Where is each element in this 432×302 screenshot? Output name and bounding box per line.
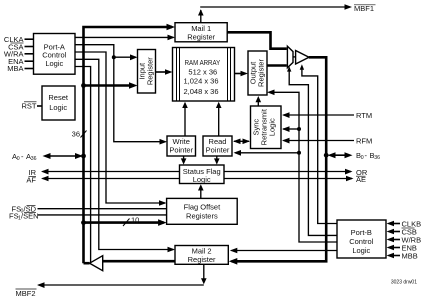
svg-text:Logic: Logic [45,59,63,68]
arrowhead A-bus to Mail 1 [167,24,176,31]
junction to Read Pointer [234,150,302,156]
Reset Logic box U2 [42,86,75,120]
svg-text:Register: Register [146,57,155,85]
label bus width 36 with slash [72,130,87,139]
wire Output Register to mux [267,64,287,67]
wire mux select from Port-B [287,66,337,235]
pin AE [224,175,366,184]
svg-text:512 x 36: 512 x 36 [188,68,217,77]
svg-text:MBF1: MBF1 [354,4,374,13]
svg-text:Flag Offset: Flag Offset [184,203,221,212]
svg-text:36: 36 [72,130,80,139]
wire Mail 2 to MBF2 [37,264,207,288]
pin CLKA [4,35,34,44]
Mail 1 Register box [175,23,227,42]
pin ENB [387,243,417,252]
svg-text:Reset: Reset [48,93,69,102]
svg-text:MBB: MBB [402,251,418,260]
pin AF [26,176,179,185]
Sync Retransmit Logic box [251,106,282,149]
pin IR [29,168,180,177]
pin RFM [282,136,372,145]
svg-text:Register: Register [187,32,215,41]
pin MBA [7,64,33,73]
junction A-bus to Input Register [81,82,137,89]
pin ENA [8,57,33,66]
wire Write Pointer to RAM [182,102,188,136]
wire A-bus bottom to buffer apex [84,262,90,265]
pin CSA [8,42,33,51]
svg-text:RTM: RTM [356,111,372,120]
Input Register box [138,50,156,94]
svg-text:Register: Register [188,255,216,264]
wire Read Pointer to Sync Retransmit (bidirectional) [233,139,250,145]
svg-text:MBF2: MBF2 [16,289,36,298]
pin FS0/SD [12,205,167,215]
svg-text:0: 0 [17,156,20,162]
node A0 - A36 pins [12,152,86,162]
pin MBB [387,251,418,260]
pin CLKB [387,219,422,228]
pin W/RB [387,235,422,244]
wire RAM to Output Register [235,71,249,77]
pin RST [22,102,42,111]
label bus width 10 with slash [123,216,139,227]
svg-text:Logic: Logic [49,103,67,112]
svg-text:Logic: Logic [268,118,277,136]
wire Output Register load from Port-B [267,90,337,243]
svg-text:AF: AF [26,176,36,185]
wire buffer B enable from Port-B [300,64,337,223]
wire mux to buffer stub [293,56,295,58]
arrowhead B-bus into Mail 2 [229,258,238,265]
wire Port-A out5 to A-port buffer enable [75,67,91,263]
wire Read Pointer to Status Flag Logic [214,156,220,165]
wire Input Register to RAM [156,69,173,75]
pin W/RA [4,50,34,59]
pin FS1/SEN [9,212,167,222]
svg-text:Port-B: Port-B [351,228,372,237]
svg-text:Register: Register [257,59,266,87]
wire A-bus (A-port data bus, 36 bits) [84,27,173,263]
wire Flag Offset to Status Flag Logic [198,184,204,198]
svg-text:Registers: Registers [186,212,218,221]
wire A-bus to Flag Offset (10-bit offset bus) [81,219,167,226]
wire Mail 1 to output mux (thick elbow) [227,32,287,48]
RAM ARRAY box [173,48,235,102]
svg-text:1,024 x 36: 1,024 x 36 [183,77,218,86]
wire Read Pointer to RAM [216,102,222,136]
wire buffer B output / B-bus [232,57,327,261]
wire Mail 2 to buffer A (data) [103,260,176,263]
Output Register box [248,51,267,95]
svg-text:RAM ARRAY: RAM ARRAY [185,58,221,67]
Flag Offset Registers box [167,198,238,224]
tri-state buffer B (output driver) [296,51,309,65]
wire Sync Retransmit to Output Register [256,96,262,106]
wire Port-B to Mail 2 (control) [230,248,337,254]
svg-text:36: 36 [31,156,37,162]
Port-B Control Logic box [337,220,386,258]
junction to Sync Retransmit Logic [282,126,301,132]
tri-state buffer A (A-port driver) [90,256,103,271]
svg-text:10: 10 [131,216,139,225]
svg-text:RST: RST [22,102,37,111]
wire Write Pointer to Status Flag Logic [181,156,187,165]
svg-text:RFM: RFM [356,136,372,145]
node MBF1 label [354,4,376,13]
wire MBF1 vertical from Mail 1 Register top [198,9,204,22]
node B0 - B36 pins [324,151,380,161]
svg-text:MBA: MBA [7,64,23,73]
mux (2:1 output multiplexer) [287,46,293,67]
svg-text:3023 drw01: 3023 drw01 [391,280,417,286]
svg-text:Logic: Logic [352,246,370,255]
wire Port-A out4 to Mail 2 Register [75,59,175,252]
pin RTM [282,111,372,120]
svg-text:36: 36 [374,155,380,161]
pin CSB [387,227,417,236]
Port-A Control Logic box U1 [34,34,76,75]
wire MBF1 horizontal [200,6,345,8]
wire Port-A out2 to Input Register and Write Pointer [75,45,167,145]
svg-text:Control: Control [349,237,374,246]
node MBF2 label [16,289,37,298]
wire Port-A to Mail 1 Register (control) [75,35,175,41]
svg-text:2,048 x 36: 2,048 x 36 [183,87,218,96]
arrowhead MBF1 [345,4,353,10]
svg-text:Pointer: Pointer [169,145,193,154]
svg-text:Pointer: Pointer [206,145,230,154]
Status Flag Logic box [180,165,225,184]
Mail 2 Register box [175,246,228,265]
Read Pointer box [203,136,232,156]
wire Port-A out3 to Flag Offset Registers [75,52,167,206]
svg-text:0: 0 [361,155,364,161]
svg-text:Logic: Logic [193,175,211,184]
pin OR [224,168,368,177]
Write Pointer box [167,136,196,156]
svg-text:/SEN: /SEN [21,212,39,221]
